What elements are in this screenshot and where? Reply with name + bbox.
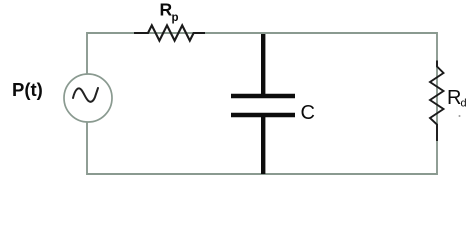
svg-text:p: p <box>172 12 179 24</box>
svg-text:R: R <box>447 87 461 109</box>
svg-text:P(t): P(t) <box>12 79 43 100</box>
svg-text:d: d <box>461 98 467 110</box>
svg-text:C: C <box>301 102 315 124</box>
